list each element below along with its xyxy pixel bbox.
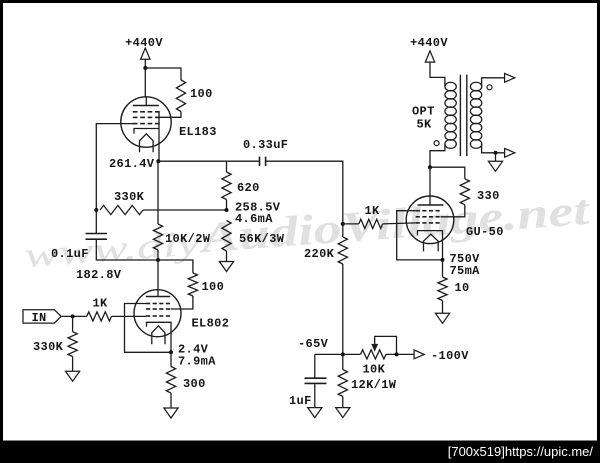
wire C3 to ground bbox=[314, 383, 316, 407]
svg-text:1uF: 1uF bbox=[289, 394, 312, 408]
svg-text:4.6mA: 4.6mA bbox=[235, 212, 273, 226]
svg-text:182.8V: 182.8V bbox=[76, 268, 122, 282]
svg-text:220K: 220K bbox=[304, 247, 335, 261]
svg-text:+440V: +440V bbox=[410, 36, 448, 50]
svg-text:75mA: 75mA bbox=[450, 264, 481, 278]
resistor R6 100 (EL802 screen) bbox=[188, 273, 197, 296]
ground (input) bbox=[66, 371, 80, 381]
ground (below C3) bbox=[308, 408, 322, 418]
svg-text:0.33uF: 0.33uF bbox=[243, 138, 288, 152]
wire grid node to R11 bbox=[343, 223, 359, 225]
node U2 cathode junction bbox=[169, 350, 173, 354]
resistor R9 300 (U2 cathode) bbox=[166, 367, 175, 394]
wire U1 g3 tie to cathode bbox=[158, 112, 160, 129]
resistor R4 620 bbox=[222, 172, 231, 200]
tube U2 cathode bbox=[147, 322, 172, 352]
tube U2 heater bbox=[152, 326, 165, 344]
svg-text:1K: 1K bbox=[365, 204, 381, 218]
output arrow (secondary top) bbox=[505, 73, 515, 82]
tube U3 heater bbox=[424, 234, 439, 251]
wire plate node to GU-50 plate bbox=[429, 167, 431, 196]
svg-text:[700x519]https://upic.me/: [700x519]https://upic.me/ bbox=[448, 444, 594, 459]
power +440V arrow (left) bbox=[141, 48, 150, 59]
svg-text:56K/3W: 56K/3W bbox=[239, 232, 285, 246]
watermark bbox=[22, 187, 593, 276]
ground (below R15) bbox=[336, 408, 350, 418]
svg-text:5K: 5K bbox=[417, 118, 433, 132]
svg-text:330K: 330K bbox=[114, 190, 145, 204]
wire R15 to ground bbox=[342, 397, 344, 408]
wire OPT secondary top to output bbox=[482, 78, 505, 87]
transformer T1 primary phase dot bbox=[434, 141, 439, 146]
node bias junction bbox=[341, 352, 345, 356]
svg-text:10: 10 bbox=[455, 281, 470, 295]
svg-text:261.4V: 261.4V bbox=[109, 157, 155, 171]
wire R10 to GU-50 g2 bbox=[441, 205, 465, 217]
tube U1 grid g3 (dashes) bbox=[133, 111, 138, 113]
arrow -100V bbox=[414, 350, 424, 359]
node secondary ground junction bbox=[494, 151, 498, 155]
wire R4 to node 258.5V bbox=[226, 200, 228, 211]
resistor R15 12K/1W bbox=[338, 370, 347, 397]
wire node 182.8V to R6 bbox=[158, 260, 193, 273]
wire R5 to ground bbox=[226, 251, 228, 262]
wire R2 to node 258.5V bbox=[143, 209, 227, 211]
svg-text:10K: 10K bbox=[363, 363, 386, 377]
transformer T1 secondary winding bbox=[470, 82, 481, 91]
tube U1 heater bbox=[140, 134, 154, 153]
ground (below R9) bbox=[164, 408, 178, 418]
svg-text:-100V: -100V bbox=[431, 349, 469, 363]
wire 261.4V rail to R4 bbox=[226, 161, 228, 172]
svg-text:7.9mA: 7.9mA bbox=[178, 355, 216, 369]
tube U1 grid g2 (dashes) bbox=[133, 116, 138, 118]
svg-text:1K: 1K bbox=[93, 297, 109, 311]
wire R12 to bias node bbox=[342, 264, 344, 354]
tube U2 plate bbox=[146, 296, 170, 298]
capacitor C2 0.33uF bbox=[259, 157, 261, 166]
svg-text:IN: IN bbox=[32, 311, 47, 325]
wire U1 cathode to node 261.4V bbox=[158, 129, 160, 162]
resistor R1 100 (EL183 screen) bbox=[176, 80, 185, 112]
node 258.5V junction bbox=[225, 208, 229, 212]
svg-text:330: 330 bbox=[477, 189, 500, 203]
svg-text:12K/1W: 12K/1W bbox=[351, 378, 397, 392]
node GU-50 plate junction bbox=[428, 165, 432, 169]
svg-text:300: 300 bbox=[183, 377, 206, 391]
wire R8 to U2 g1 bbox=[112, 315, 147, 317]
node U3 cathode junction bbox=[441, 258, 445, 262]
ground (below R13) bbox=[435, 313, 449, 323]
wire R14 wiper loop bbox=[375, 336, 397, 354]
wire R11 to U3 g1 bbox=[383, 223, 416, 224]
svg-text:100: 100 bbox=[190, 87, 213, 101]
transformer T1 secondary phase dot bbox=[487, 85, 492, 90]
wire -65V rail bbox=[315, 353, 361, 355]
ground (below R5) bbox=[219, 262, 233, 272]
resistor R11 1K (U3 grid stopper) bbox=[359, 219, 383, 228]
wire OPT secondary bottom bbox=[482, 144, 505, 153]
svg-text:100: 100 bbox=[202, 280, 225, 294]
wire grid node to R12 bbox=[342, 224, 344, 237]
wire node to C1 top bbox=[95, 210, 97, 234]
node 330K/0.1uF junction bbox=[94, 208, 98, 212]
svg-text:OPT: OPT bbox=[412, 105, 435, 119]
wire OPT primary bottom to plate node bbox=[430, 144, 445, 167]
svg-text:GU-50: GU-50 bbox=[466, 225, 504, 239]
wire U1 g1 to bias node bbox=[96, 124, 133, 210]
svg-text:-65V: -65V bbox=[298, 337, 329, 351]
potentiometer R14 10K bbox=[361, 350, 387, 359]
svg-text:+440V: +440V bbox=[125, 36, 163, 50]
tube U3 grid g3 (dashes) bbox=[416, 210, 420, 212]
tube U3 grid g2 (dashes) bbox=[416, 216, 420, 218]
caption bar bbox=[0, 441, 600, 463]
svg-text:620: 620 bbox=[237, 181, 260, 195]
wire C1 bottom to node 182.8V bbox=[96, 239, 158, 260]
wire bias node to R15 bbox=[342, 354, 344, 369]
node GU-50 grid junction bbox=[341, 222, 345, 226]
wire EL183 plate to +440V bbox=[144, 68, 146, 97]
power +440V arrow (right) bbox=[425, 51, 434, 62]
resistor R8 1K (U2 grid stopper) bbox=[87, 312, 112, 321]
tube U2 grid g2 (dashes) bbox=[146, 308, 150, 310]
tube U2 grid g3 (dashes) bbox=[146, 303, 150, 305]
wire plate node to R10 bbox=[430, 167, 465, 179]
tube U3 cathode bbox=[418, 231, 443, 260]
svg-text:EL183: EL183 bbox=[179, 125, 217, 139]
resistor R12 220K bbox=[338, 237, 347, 264]
input tag IN bbox=[23, 310, 61, 323]
svg-text:10K/2W: 10K/2W bbox=[165, 232, 211, 246]
capacitor C3 1uF bbox=[305, 377, 327, 379]
transformer T1 OPT primary winding bbox=[445, 82, 456, 91]
wire R6 to EL802 g2 bbox=[171, 296, 193, 309]
wire node 261.4V to R3 bbox=[157, 161, 159, 224]
wire IN to R8 bbox=[61, 315, 86, 317]
tube U3 GU-50 envelope bbox=[406, 196, 454, 244]
resistor R10 330 (GU-50 screen) bbox=[460, 179, 469, 205]
svg-text:EL802: EL802 bbox=[192, 317, 230, 331]
wire secondary to ground bbox=[495, 153, 497, 162]
resistor R2 330K (U1 grid) bbox=[100, 205, 143, 214]
wire R3 to node 182.8V bbox=[157, 250, 159, 260]
tube U2 EL802 envelope bbox=[134, 290, 181, 337]
ground (secondary) bbox=[488, 161, 502, 171]
wire +440V rail to R1 bbox=[145, 68, 181, 80]
wire -65V rail to C3 bbox=[314, 354, 316, 378]
wire 261.4V rail to C2 bbox=[227, 160, 260, 162]
resistor R7 330K (input) bbox=[68, 332, 77, 357]
resistor R13 10 (U3 cathode) bbox=[438, 277, 447, 301]
node input junction bbox=[71, 314, 75, 318]
capacitor C1 0.1uF bbox=[86, 233, 108, 235]
wire node 182.8V to EL802 plate bbox=[157, 260, 159, 290]
resistor R3 10K/2W bbox=[153, 224, 162, 250]
node 261.4V junction bbox=[156, 159, 160, 163]
resistor R5 56K/3W bbox=[222, 221, 231, 252]
wire R9 to ground bbox=[170, 393, 172, 408]
wire node 261.4V rail bbox=[158, 160, 226, 162]
wire R13 to ground bbox=[442, 301, 444, 314]
wire +440V to OPT primary bbox=[430, 62, 445, 87]
svg-text:330K: 330K bbox=[33, 340, 64, 354]
tube U1 EL183 envelope bbox=[121, 97, 171, 147]
wire U2 g3 tie to cathode (box) bbox=[125, 304, 172, 353]
wire +440V arrow to node bbox=[144, 59, 146, 68]
node 182.8V junction bbox=[156, 258, 160, 262]
wire U3 g3 tie to cathode (box) bbox=[397, 211, 443, 260]
transformer T1 core bbox=[459, 75, 461, 157]
wire R14 to -100V arrow bbox=[386, 353, 414, 355]
node +440V/EL183 junction bbox=[143, 66, 147, 70]
tube U1 grid g1 (dashes) bbox=[133, 123, 138, 125]
tube U3 plate bbox=[418, 204, 444, 206]
wire U2 cathode to R9 bbox=[170, 352, 172, 366]
wire C2 to GU-50 grid node bbox=[266, 161, 343, 224]
node wiper junction bbox=[395, 352, 399, 356]
wire R1 to EL183 g2 bbox=[160, 112, 182, 118]
tube U2 grid g1 (dashes) bbox=[146, 315, 150, 317]
output arrow (secondary bottom) bbox=[505, 148, 515, 157]
svg-text:0.1uF: 0.1uF bbox=[51, 247, 89, 261]
wire R7 to ground bbox=[72, 357, 74, 372]
tube U3 grid g1 (dashes) bbox=[416, 222, 420, 224]
wiper arrowhead bbox=[372, 345, 377, 351]
wire input node to R7 bbox=[72, 316, 74, 331]
tube U1 plate bbox=[133, 105, 159, 107]
wire U3 cathode to R13 bbox=[442, 260, 444, 277]
tube U1 cathode bbox=[134, 129, 159, 134]
